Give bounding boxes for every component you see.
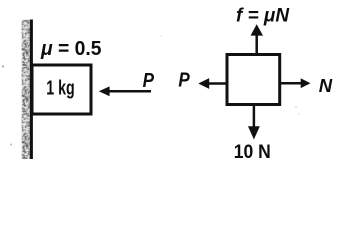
wall hatched texture xyxy=(22,20,31,160)
svg-text:1 kg: 1 kg xyxy=(46,78,75,100)
arrow 10N (down) xyxy=(253,106,256,128)
svg-text:P: P xyxy=(143,69,155,92)
svg-text:10 N: 10 N xyxy=(234,141,271,163)
arrow f (up) xyxy=(255,35,258,54)
svg-text:P: P xyxy=(178,69,190,92)
arrow P (left) xyxy=(209,82,226,85)
wall right edge line xyxy=(30,20,33,160)
arrow P (applied force, left figure) xyxy=(109,90,152,93)
faint scan speckles xyxy=(2,65,4,67)
svg-text:N: N xyxy=(319,75,333,96)
block (1 kg) xyxy=(32,65,91,114)
svg-text:f = μN: f = μN xyxy=(236,4,290,26)
svg-text:μ = 0.5: μ = 0.5 xyxy=(40,38,101,60)
free-body box xyxy=(227,55,280,105)
arrow N (right) xyxy=(281,82,302,85)
